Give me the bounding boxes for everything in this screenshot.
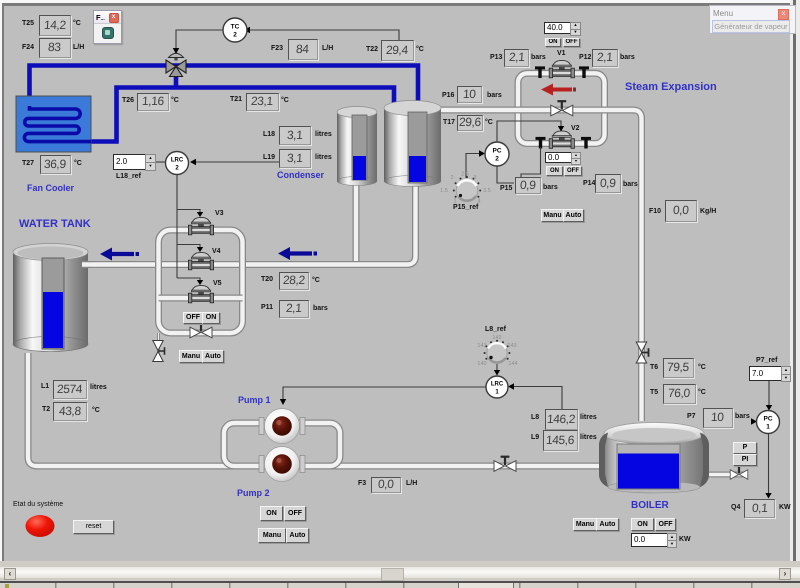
boiler bbox=[599, 423, 709, 494]
heading Pump 1 bbox=[238, 395, 271, 405]
heading WATER TANK bbox=[19, 218, 91, 230]
wire PC2 to V2 bbox=[497, 121, 564, 142]
svg-text:143: 143 bbox=[507, 343, 516, 349]
valve V4 bbox=[188, 252, 213, 269]
wire P7_ref to PC1 bbox=[766, 381, 772, 411]
butterfly valve steam loop middle bbox=[551, 100, 573, 116]
wire LRC2 to V3 V4 V5 bbox=[177, 175, 203, 286]
button Manu steam bbox=[541, 209, 564, 222]
controller LRC2 bbox=[166, 152, 189, 175]
spinner 0.0 boiler bbox=[631, 533, 669, 547]
svg-text:142: 142 bbox=[492, 335, 501, 341]
controller LRC1 bbox=[486, 376, 508, 398]
label valve V4 bbox=[212, 248, 221, 255]
knob L8_ref bbox=[477, 335, 517, 367]
button reset bbox=[73, 520, 114, 534]
button OFF ladder bbox=[183, 312, 203, 324]
button Auto steam bbox=[563, 209, 584, 222]
button PI bbox=[733, 454, 757, 466]
status label bbox=[13, 501, 63, 508]
svg-text:PC: PC bbox=[763, 416, 772, 423]
svg-text:2: 2 bbox=[450, 175, 453, 181]
pipe: steam loop rect bbox=[518, 73, 605, 143]
chrome: right edge bbox=[790, 0, 800, 588]
knob label P15_ref bbox=[453, 204, 478, 211]
chrome: bottom scrollbar bbox=[0, 561, 800, 583]
valve V5 bbox=[188, 285, 213, 302]
button OFF steam bbox=[564, 166, 582, 176]
display T21 bbox=[230, 96, 242, 103]
chrome: top edge bbox=[0, 0, 800, 3]
wire L8 to LRC1 bbox=[508, 383, 562, 409]
controller PC1 bbox=[757, 411, 780, 434]
window mini F bbox=[93, 10, 122, 44]
svg-text:2: 2 bbox=[233, 32, 237, 39]
svg-text:3: 3 bbox=[473, 175, 476, 181]
svg-text:1: 1 bbox=[766, 424, 770, 431]
display T6 bbox=[650, 364, 658, 371]
chrome: left edge bbox=[0, 0, 2, 588]
display L1 bbox=[41, 383, 49, 390]
wire pressure tap to P15 bbox=[521, 147, 541, 177]
svg-text:2: 2 bbox=[495, 156, 499, 163]
condenser small tank bbox=[337, 107, 377, 186]
pipe: water tank drain to boiler bottom run bbox=[28, 353, 599, 466]
button Manu ladder bbox=[179, 350, 203, 363]
label valve V3 bbox=[215, 210, 224, 217]
butterfly valve ladder bottom bbox=[190, 322, 212, 338]
wire P15_ref knob to PC2 bbox=[466, 150, 485, 178]
display T5 bbox=[650, 389, 658, 396]
pipe: boiler outlet right bbox=[703, 472, 748, 478]
display Q4 bbox=[731, 504, 740, 511]
button Manu pumps bbox=[258, 528, 286, 543]
heading BOILER bbox=[631, 500, 669, 511]
spinner P7_ref bbox=[756, 357, 777, 364]
pipe: cold return condenser to fan cooler bbox=[90, 88, 394, 142]
button OFF pumps bbox=[284, 506, 306, 521]
button OFF top bbox=[563, 38, 580, 47]
spinner 0.0 steam bbox=[545, 152, 573, 163]
blue arrow into water tank bbox=[100, 248, 139, 261]
button P bbox=[733, 442, 757, 454]
svg-text:2.5: 2.5 bbox=[461, 172, 469, 178]
clamp right of V1 bbox=[579, 66, 589, 78]
label valve V1 bbox=[557, 50, 566, 57]
svg-text:LRC: LRC bbox=[171, 158, 184, 164]
wire P15 to PC2 bbox=[497, 167, 514, 184]
display T26 bbox=[122, 97, 134, 104]
display F3 bbox=[358, 480, 366, 487]
pump Pump1 bbox=[259, 409, 305, 444]
red status lamp bbox=[26, 515, 55, 537]
display F10 bbox=[649, 208, 661, 215]
display L19 bbox=[263, 154, 275, 161]
heading Steam Expansion bbox=[625, 81, 717, 93]
butterfly valve boiler inlet bbox=[494, 456, 516, 472]
clamp right of V2 bbox=[581, 137, 591, 149]
window Menu bbox=[709, 5, 796, 34]
display T27 bbox=[22, 160, 34, 167]
blue arrow condenser return bbox=[278, 247, 317, 260]
controller PC2 bbox=[485, 142, 509, 166]
svg-text:141: 141 bbox=[477, 343, 486, 349]
display P7 bbox=[687, 413, 696, 420]
button OFF boiler bbox=[655, 518, 676, 531]
display L9 bbox=[531, 434, 539, 441]
display T22 bbox=[366, 46, 378, 53]
condenser big tank bbox=[384, 101, 441, 187]
display P13 bbox=[490, 54, 502, 61]
button ON ladder bbox=[202, 312, 220, 324]
pipe: condenser small tank leg bbox=[353, 183, 360, 261]
clamp left of V2 bbox=[536, 137, 546, 149]
fan cooler coil bbox=[24, 106, 91, 142]
svg-text:1.5: 1.5 bbox=[440, 188, 448, 194]
button Auto pumps bbox=[286, 528, 309, 543]
button Auto ladder bbox=[202, 350, 224, 363]
display F23 bbox=[271, 45, 283, 52]
button ON steam bbox=[546, 166, 563, 176]
steam line valve above boiler bbox=[636, 342, 648, 363]
svg-text:PC: PC bbox=[492, 148, 501, 155]
wire L8_ref knob to LRC1 bbox=[494, 364, 500, 376]
display P11 bbox=[261, 304, 273, 311]
valve V2 bbox=[549, 131, 574, 148]
button Manu boiler bbox=[573, 518, 597, 531]
clamp left of V1 bbox=[535, 66, 545, 78]
pipe: ladder V5 rung bbox=[159, 295, 243, 302]
wire TC2 to 3-way valve bbox=[173, 30, 223, 54]
button ON pumps bbox=[260, 506, 283, 521]
pipe: steam main line condenser to boiler bbox=[441, 110, 642, 421]
display P15 bbox=[500, 185, 512, 192]
svg-text:144: 144 bbox=[508, 361, 517, 367]
drain valve below ladder bbox=[153, 341, 165, 362]
valve boiler outlet bbox=[730, 464, 748, 479]
svg-text:TC: TC bbox=[231, 24, 240, 31]
wire PC1 to Q4 bbox=[765, 434, 771, 499]
svg-text:140: 140 bbox=[477, 361, 486, 367]
label valve V5 bbox=[213, 280, 222, 287]
display P16 bbox=[442, 92, 454, 99]
knob P15_ref bbox=[440, 172, 491, 205]
pipe: valve ladder outer loop bbox=[159, 230, 243, 333]
wire L19 to LRC2 bbox=[190, 159, 280, 165]
wire P7 to PC1 bbox=[751, 418, 757, 424]
display L18 bbox=[263, 131, 275, 138]
pipe: ladder drain stub bbox=[157, 333, 159, 362]
pipe: condenser main return rung (tank to condenser legs) bbox=[85, 184, 416, 265]
button ON boiler bbox=[631, 518, 654, 531]
display T20 bbox=[261, 276, 273, 283]
water tank bbox=[13, 244, 88, 352]
spinner 40.0 bbox=[544, 22, 571, 34]
valve V3 bbox=[188, 217, 213, 234]
svg-text:LRC: LRC bbox=[491, 382, 504, 388]
wire L18_ref spinner to LRC2 bbox=[155, 161, 165, 163]
display L8 bbox=[531, 414, 539, 421]
water tank inlet stub bbox=[82, 261, 92, 268]
knob label L8_ref bbox=[485, 326, 506, 333]
fan cooler box bbox=[16, 96, 91, 152]
button Auto boiler bbox=[596, 518, 619, 531]
pipe: 3-way valve bypass leg bbox=[174, 70, 179, 88]
display P14 bbox=[583, 180, 595, 187]
display F24 bbox=[22, 44, 34, 51]
display T17 bbox=[443, 119, 455, 126]
3-way valve top bbox=[166, 53, 186, 76]
pump Pump2 bbox=[259, 447, 305, 482]
svg-text:3.5: 3.5 bbox=[483, 188, 491, 194]
display P12 bbox=[579, 54, 591, 61]
label valve V2 bbox=[571, 125, 580, 132]
pipe: pump parallel loop bbox=[224, 423, 340, 466]
display T25 bbox=[22, 20, 34, 27]
pipe: cold supply fan cooler to condenser bbox=[30, 66, 419, 107]
button ON top bbox=[545, 38, 561, 47]
display T2 bbox=[42, 406, 50, 413]
heading Fan Cooler bbox=[27, 183, 74, 193]
valve V1 bbox=[549, 60, 574, 77]
spinner L18_ref bbox=[113, 154, 146, 170]
red arrow steam flow bbox=[541, 84, 576, 96]
controller TC2 bbox=[223, 18, 247, 42]
heading Condenser bbox=[277, 170, 324, 180]
wire LRC1 to Pump1 bbox=[280, 387, 486, 405]
chrome: bottom taskbar strip bbox=[0, 583, 800, 588]
heading Pump 2 bbox=[237, 488, 270, 498]
wire T22 to TC2 bbox=[244, 27, 399, 40]
